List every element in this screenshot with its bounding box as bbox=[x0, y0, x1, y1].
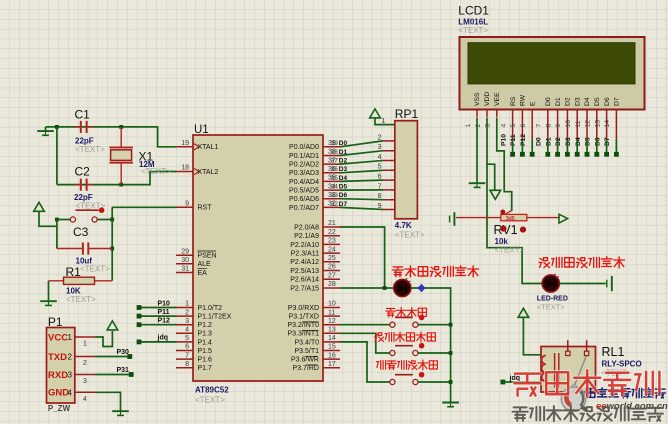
wire VSS to ground bbox=[476, 118, 478, 179]
wire LED2 cathode to 0V bar bbox=[560, 283, 606, 285]
svg-text:P2.6/A14: P2.6/A14 bbox=[290, 277, 319, 284]
annotation: recognize switch key text bbox=[375, 333, 384, 342]
svg-text:D4: D4 bbox=[575, 137, 582, 146]
wire P3.4 to button3 bbox=[340, 342, 390, 382]
svg-text:P2.1/A9: P2.1/A9 bbox=[294, 233, 319, 240]
svg-text:RST: RST bbox=[198, 205, 213, 212]
svg-text:P3.2/INT0: P3.2/INT0 bbox=[287, 322, 319, 329]
svg-text:P_ZW: P_ZW bbox=[48, 404, 71, 413]
wire LCD D4 (D4) wire bbox=[586, 140, 588, 153]
svg-text:C2: C2 bbox=[75, 165, 91, 179]
svg-text:18: 18 bbox=[181, 165, 189, 172]
power arrow VCC (reset) bbox=[34, 202, 45, 211]
svg-text:P2.0/A8: P2.0/A8 bbox=[294, 224, 319, 231]
svg-text:RS: RS bbox=[510, 96, 517, 106]
svg-text:P1.2: P1.2 bbox=[198, 322, 213, 329]
svg-text:1: 1 bbox=[382, 118, 386, 125]
wire button2 to ground rail bbox=[418, 352, 451, 354]
wire LCD D2 (D2) wire bbox=[566, 140, 568, 153]
svg-text:XTAL2: XTAL2 bbox=[198, 169, 219, 176]
svg-text:D6: D6 bbox=[604, 97, 611, 106]
svg-text:D6: D6 bbox=[339, 192, 348, 199]
svg-text:8: 8 bbox=[185, 361, 189, 368]
svg-text:<TEXT>: <TEXT> bbox=[458, 26, 488, 35]
power arrow VCC (P1) bbox=[107, 321, 118, 330]
wire P0.5 to RP1 (net D5) bbox=[340, 189, 383, 191]
svg-text:D3: D3 bbox=[574, 97, 581, 106]
svg-text:P0.0/AD0: P0.0/AD0 bbox=[289, 144, 319, 151]
svg-text:<TEXT>: <TEXT> bbox=[537, 303, 566, 312]
svg-text:38: 38 bbox=[331, 149, 339, 156]
svg-text:9: 9 bbox=[555, 124, 562, 128]
ground GND (buttons) bbox=[442, 398, 459, 406]
ground GND (R1) bbox=[40, 297, 57, 305]
svg-text:26: 26 bbox=[328, 264, 336, 271]
svg-text:4: 4 bbox=[185, 327, 189, 334]
watermark: eeworld blue text (partially hidden) bbox=[586, 389, 595, 398]
junction reset left node bbox=[55, 218, 59, 222]
svg-text:D3: D3 bbox=[565, 137, 572, 146]
svg-text:D7: D7 bbox=[604, 137, 611, 146]
LCD1 pin numbers and net labels (rotated) bbox=[465, 120, 611, 146]
junction button3 right bbox=[449, 380, 453, 384]
svg-text:9: 9 bbox=[185, 201, 189, 208]
wire button3 to ground rail bbox=[418, 381, 451, 383]
node jdq-u1 terminal dot bbox=[137, 340, 142, 345]
svg-text:12: 12 bbox=[585, 120, 592, 128]
svg-text:37: 37 bbox=[331, 158, 339, 165]
svg-text:2: 2 bbox=[83, 360, 87, 367]
power arrow RV1 right (right) bbox=[559, 214, 568, 223]
svg-text:P3.0/RXD: P3.0/RXD bbox=[288, 305, 319, 312]
svg-text:4: 4 bbox=[68, 388, 73, 397]
junction LED1 anode node bbox=[383, 286, 387, 290]
LCD1 pin stubs bbox=[477, 110, 616, 140]
svg-text:GND: GND bbox=[48, 388, 69, 399]
svg-text:AT89C52: AT89C52 bbox=[195, 386, 229, 395]
svg-text:32: 32 bbox=[331, 201, 339, 208]
svg-text:15: 15 bbox=[328, 344, 336, 351]
svg-text:<TEXT>: <TEXT> bbox=[195, 396, 225, 405]
svg-text:P3.1/TXD: P3.1/TXD bbox=[289, 314, 319, 321]
node D4 end terminal dot bbox=[585, 152, 590, 157]
svg-text:P11: P11 bbox=[158, 309, 170, 316]
node P30 terminal dot bbox=[127, 354, 132, 359]
power arrow VCC (relay coil) bbox=[518, 308, 529, 317]
svg-text:VDD: VDD bbox=[484, 92, 491, 106]
wire P0.6 to RP1 (net D6) bbox=[340, 199, 383, 200]
wire reset left vertical bbox=[56, 220, 58, 249]
wire reset right vertical bbox=[111, 207, 113, 280]
RP1 pin numbers bbox=[378, 118, 386, 210]
junction C3 right node bbox=[110, 247, 114, 251]
wire GND of P1 bbox=[95, 392, 121, 407]
svg-text:D0: D0 bbox=[339, 140, 348, 147]
wire VDD branch to LED2 bbox=[487, 164, 542, 283]
svg-text:<TEXT>: <TEXT> bbox=[141, 167, 171, 176]
push-button record key bbox=[390, 315, 425, 328]
node P12 end terminal dot bbox=[530, 152, 535, 157]
wire P0.1 to RP1 (net D1) bbox=[340, 151, 383, 156]
potentiometer RV1 bbox=[456, 210, 560, 223]
node P11 end terminal dot bbox=[520, 152, 525, 157]
node P12 terminal dot bbox=[137, 322, 142, 327]
svg-text:D2: D2 bbox=[339, 158, 348, 165]
svg-text:8: 8 bbox=[545, 124, 552, 128]
svg-text:33: 33 bbox=[331, 192, 339, 199]
svg-text:TXD: TXD bbox=[48, 352, 67, 363]
svg-text:13: 13 bbox=[328, 327, 336, 334]
annotation: record-mode indicator text bbox=[392, 267, 403, 277]
svg-text:<TEXT>: <TEXT> bbox=[66, 295, 96, 304]
wire P10 net bbox=[139, 307, 176, 309]
svg-text:P11: P11 bbox=[510, 134, 517, 146]
wire P3.2 to button1 bbox=[340, 324, 390, 326]
wire VDD to power bbox=[487, 118, 495, 191]
wire RP1 pin1 to power bbox=[375, 118, 395, 125]
svg-text:P12: P12 bbox=[158, 318, 171, 325]
svg-text:D5: D5 bbox=[585, 137, 592, 146]
junction X1 bottom bbox=[119, 183, 123, 187]
svg-text:<TEXT>: <TEXT> bbox=[80, 265, 110, 274]
svg-text:XTAL1: XTAL1 bbox=[198, 144, 219, 151]
svg-text:P2.5/A13: P2.5/A13 bbox=[290, 268, 319, 275]
svg-text:11: 11 bbox=[328, 309, 335, 316]
svg-text:P2.2/A10: P2.2/A10 bbox=[290, 242, 319, 249]
node P31 terminal dot bbox=[129, 372, 134, 377]
svg-text:D4: D4 bbox=[339, 175, 348, 182]
svg-text:VSS: VSS bbox=[474, 92, 481, 106]
wire LCD D7 (D7) wire bbox=[615, 140, 617, 153]
svg-text:3: 3 bbox=[185, 318, 189, 325]
wire XTAL1 net bbox=[46, 127, 177, 147]
svg-text:VCC: VCC bbox=[48, 332, 68, 343]
svg-text:23: 23 bbox=[328, 238, 336, 245]
U1 left pin stubs bbox=[176, 147, 193, 368]
svg-text:11: 11 bbox=[575, 120, 582, 127]
svg-text:3: 3 bbox=[83, 378, 87, 385]
wire P31 net from RXD bbox=[95, 374, 131, 376]
svg-text:P0.6/AD6: P0.6/AD6 bbox=[289, 196, 319, 203]
wire LED1 cathode to ground rail bbox=[411, 288, 451, 398]
svg-text:<TEXT>: <TEXT> bbox=[395, 231, 425, 240]
svg-text:7: 7 bbox=[185, 352, 189, 359]
wire LCD RW (P11) wire bbox=[521, 140, 523, 153]
svg-text:5: 5 bbox=[185, 335, 189, 342]
P1 outer pin numbers bbox=[83, 341, 87, 403]
ground GND (P1) bbox=[112, 407, 129, 415]
svg-text:P2.3/A11: P2.3/A11 bbox=[291, 251, 319, 258]
svg-text:RP1: RP1 bbox=[395, 107, 419, 121]
wire button1 to ground rail bbox=[418, 324, 451, 326]
svg-text:P1.1/T2EX: P1.1/T2EX bbox=[198, 314, 232, 321]
RP1 pin stubs bbox=[383, 141, 395, 210]
wire P11 net bbox=[139, 315, 176, 317]
wire LCD RS (P10) wire bbox=[512, 140, 514, 153]
wire P12 net bbox=[139, 324, 176, 326]
relay RL1 bbox=[541, 340, 596, 392]
svg-text:12: 12 bbox=[328, 318, 336, 325]
U1 XTAL clock chevrons bbox=[194, 144, 199, 175]
svg-text:P3.6/WR: P3.6/WR bbox=[291, 357, 319, 364]
node P10 end terminal dot bbox=[510, 152, 515, 157]
capacitor C3 bbox=[57, 243, 112, 255]
watermark: RF antenna expert text bbox=[513, 407, 528, 421]
svg-text:P1.0/T2: P1.0/T2 bbox=[198, 305, 223, 312]
svg-text:D5: D5 bbox=[339, 184, 348, 191]
svg-text:7: 7 bbox=[536, 124, 543, 128]
annotation: recognize-mode indicator text bbox=[539, 258, 550, 268]
resistor R1 bbox=[49, 277, 113, 284]
node D6 end terminal dot bbox=[604, 152, 609, 157]
U1 left pin names bbox=[198, 144, 232, 372]
LED D-record (P2 indicator) bbox=[394, 278, 411, 296]
svg-text:P30: P30 bbox=[117, 349, 130, 356]
svg-text:P10: P10 bbox=[158, 300, 171, 307]
svg-text:D1: D1 bbox=[545, 137, 552, 146]
svg-text:jdq: jdq bbox=[157, 335, 169, 342]
wire VCC of P1 to power bbox=[95, 331, 113, 347]
U1 right pin stubs bbox=[323, 147, 340, 368]
svg-text:E: E bbox=[529, 101, 536, 106]
wire LCD D6 (D6) wire bbox=[606, 140, 608, 153]
svg-text:D7: D7 bbox=[339, 201, 348, 208]
svg-text:39: 39 bbox=[331, 140, 339, 147]
svg-text:U1: U1 bbox=[194, 124, 209, 136]
svg-text:21: 21 bbox=[328, 220, 336, 227]
svg-text:16: 16 bbox=[328, 352, 336, 359]
push-button recognize-switch key bbox=[390, 343, 425, 356]
P1 pin numbers (inside) bbox=[68, 333, 73, 397]
svg-text:2: 2 bbox=[378, 134, 382, 141]
svg-text:D1: D1 bbox=[339, 149, 348, 156]
wire LCD D1 (D1) wire bbox=[557, 140, 559, 153]
svg-text:1: 1 bbox=[185, 301, 189, 308]
svg-text:10: 10 bbox=[328, 301, 336, 308]
U1 right pin names bbox=[287, 144, 319, 372]
wire R1 to ground bbox=[48, 281, 50, 297]
svg-text:13: 13 bbox=[594, 120, 601, 128]
svg-text:D0: D0 bbox=[545, 97, 552, 106]
power bar (LED2 right 0V) bbox=[607, 276, 612, 291]
svg-text:ALE: ALE bbox=[198, 261, 212, 268]
svg-text:P0.7/AD7: P0.7/AD7 bbox=[289, 205, 319, 212]
svg-text:D5: D5 bbox=[594, 97, 601, 106]
svg-text:6: 6 bbox=[520, 124, 527, 128]
junction X1 top bbox=[119, 125, 123, 129]
wire power arrow stem to reset node bbox=[39, 211, 57, 226]
svg-text:1: 1 bbox=[465, 124, 472, 128]
wire P0.4 to RP1 (net D4) bbox=[340, 180, 383, 181]
svg-text:1: 1 bbox=[83, 341, 87, 348]
svg-text:LED-RED: LED-RED bbox=[537, 296, 568, 303]
wire RST net to U1 bbox=[112, 206, 176, 208]
node P10 terminal dot bbox=[137, 305, 142, 310]
svg-text:D2: D2 bbox=[555, 137, 562, 146]
svg-text:C1: C1 bbox=[75, 108, 91, 122]
svg-text:34: 34 bbox=[331, 184, 339, 191]
svg-text:27: 27 bbox=[328, 272, 336, 279]
push-button erase-fingerprint key bbox=[390, 372, 425, 385]
svg-text:P2.7/A15: P2.7/A15 bbox=[290, 285, 319, 292]
wire P0.7 to RP1 (net D7) bbox=[340, 207, 383, 209]
annotation: record key text bbox=[386, 308, 396, 317]
watermark: Yidituo training red strokes bbox=[514, 374, 540, 396]
junction button2 right bbox=[449, 351, 453, 355]
wire cap common left vertical bbox=[56, 127, 58, 185]
wire RV1 to arrow bbox=[558, 218, 559, 220]
wire P2.7 to LED1 bbox=[340, 287, 394, 289]
svg-text:D4: D4 bbox=[584, 97, 591, 106]
annotation: erase fingerprint key text bbox=[377, 361, 386, 370]
svg-text:3: 3 bbox=[68, 371, 73, 380]
display LCD1 (LM016L) body bbox=[460, 37, 645, 110]
watermark: logo circle bbox=[561, 386, 588, 412]
LCD1 pin names (rotated) bbox=[474, 92, 620, 106]
svg-text:P2.4/A12: P2.4/A12 bbox=[290, 259, 319, 266]
svg-text:28: 28 bbox=[328, 281, 336, 288]
node D1 end terminal dot bbox=[555, 152, 560, 157]
svg-text:17: 17 bbox=[328, 361, 336, 368]
node jdq (relay) terminal dot bbox=[501, 380, 506, 385]
junction reset right node bbox=[110, 218, 114, 222]
LED D-recognize (LED-RED) bbox=[542, 274, 559, 292]
ground GND (LCD VSS) bbox=[469, 179, 486, 187]
wire P2.0 to LED1 node bbox=[340, 227, 385, 288]
wire LCD E (P12) wire bbox=[531, 140, 533, 153]
svg-text:P1.6: P1.6 bbox=[198, 357, 213, 364]
node P11 terminal dot bbox=[137, 314, 142, 319]
svg-text:19: 19 bbox=[181, 140, 189, 147]
wire relay coil top to power bbox=[523, 317, 541, 355]
power arrow VCC (RP1) bbox=[370, 109, 381, 118]
wire P3.3 to button2 bbox=[340, 333, 390, 353]
svg-text:RL1: RL1 bbox=[602, 345, 625, 359]
P1 pin stubs bbox=[75, 337, 95, 392]
op-amp U1 body (AT89C52 MCU) bbox=[193, 135, 323, 381]
svg-text:3: 3 bbox=[485, 124, 492, 128]
svg-text:RLY-SPCO: RLY-SPCO bbox=[602, 360, 642, 369]
svg-text:P0.5/AD5: P0.5/AD5 bbox=[289, 188, 319, 195]
wire reset button right bbox=[97, 219, 112, 221]
svg-text:D1: D1 bbox=[555, 97, 562, 106]
svg-text:D6: D6 bbox=[594, 137, 601, 146]
svg-text:D2: D2 bbox=[565, 97, 572, 106]
capacitor C2 bbox=[74, 179, 93, 191]
node D3 end terminal dot bbox=[575, 152, 580, 157]
push-button RESET bbox=[70, 207, 104, 222]
svg-text:31: 31 bbox=[181, 266, 189, 273]
watermark: Yidituo training (big red) bbox=[514, 374, 540, 396]
svg-text:1: 1 bbox=[68, 333, 73, 342]
RV1 terminal dots bbox=[500, 226, 506, 232]
capacitor C1 bbox=[74, 121, 93, 133]
svg-text:2: 2 bbox=[185, 309, 189, 316]
svg-text:P3.3/INT1: P3.3/INT1 bbox=[287, 331, 319, 338]
wire P0.0 to RP1 (net D0) bbox=[340, 141, 383, 147]
svg-text:4: 4 bbox=[500, 124, 507, 128]
ground GND (crystal circuit) bbox=[37, 127, 54, 135]
svg-text:36: 36 bbox=[331, 166, 339, 173]
resistor pack RP1 bbox=[395, 121, 418, 219]
svg-text:D0: D0 bbox=[536, 137, 543, 146]
node origin marker (blue) bbox=[418, 284, 426, 292]
junction C1 left bbox=[55, 125, 59, 129]
wire jdq net (U1) bbox=[139, 341, 176, 343]
wire LCD D3 (D3) wire bbox=[576, 140, 578, 153]
U1 right pin numbers bbox=[328, 140, 336, 368]
wire reset button left bbox=[57, 219, 70, 221]
svg-text:<TEXT>: <TEXT> bbox=[495, 246, 525, 255]
U1 left pin numbers bbox=[181, 140, 189, 368]
svg-text:P1.7: P1.7 bbox=[198, 365, 213, 372]
svg-text:P31: P31 bbox=[117, 367, 130, 374]
svg-text:2: 2 bbox=[475, 124, 482, 128]
node D7 end terminal dot bbox=[614, 152, 619, 157]
wire LCD D0 (D0) wire bbox=[547, 140, 549, 153]
svg-text:29: 29 bbox=[181, 248, 189, 255]
svg-text:2: 2 bbox=[68, 353, 73, 362]
svg-text:VEE: VEE bbox=[494, 92, 501, 106]
svg-text:10k: 10k bbox=[495, 237, 509, 246]
svg-text:25: 25 bbox=[328, 255, 336, 262]
svg-text:P0.1/AD1: P0.1/AD1 bbox=[289, 153, 319, 160]
svg-text:35: 35 bbox=[331, 175, 339, 182]
connector P1 bbox=[47, 328, 75, 404]
svg-text:P1.4: P1.4 bbox=[198, 339, 213, 346]
svg-text:P0.2/AD2: P0.2/AD2 bbox=[289, 162, 319, 169]
LCD1 screen bbox=[468, 43, 635, 84]
wire LCD D5 (D5) wire bbox=[596, 140, 598, 153]
wire VEE to RV1 wiper bbox=[497, 118, 512, 211]
svg-text:22: 22 bbox=[328, 229, 336, 236]
node D5 end terminal dot bbox=[594, 152, 599, 157]
svg-text:14: 14 bbox=[328, 335, 336, 342]
power arrow VDD (LCD) (down) bbox=[490, 190, 501, 199]
svg-text:R1: R1 bbox=[66, 265, 82, 279]
svg-text:6: 6 bbox=[185, 344, 189, 351]
svg-text:P10: P10 bbox=[500, 134, 507, 146]
svg-text:10: 10 bbox=[565, 120, 572, 128]
svg-text:24: 24 bbox=[328, 246, 336, 253]
svg-text:P0.4/AD4: P0.4/AD4 bbox=[289, 179, 319, 186]
P1 pin names bbox=[48, 332, 69, 398]
wire XTAL2 net bbox=[57, 172, 176, 185]
svg-text:P1: P1 bbox=[48, 315, 63, 329]
wire jdq to relay coil bbox=[503, 381, 541, 383]
svg-text:jdq: jdq bbox=[509, 375, 521, 382]
svg-text:RXD: RXD bbox=[48, 370, 68, 381]
svg-text:4: 4 bbox=[83, 396, 87, 403]
svg-text:LCD1: LCD1 bbox=[458, 4, 489, 18]
svg-text:<TEXT>: <TEXT> bbox=[75, 145, 105, 154]
svg-text:C3: C3 bbox=[73, 225, 89, 239]
svg-text:3d5: 3d5 bbox=[506, 216, 515, 222]
svg-text:3: 3 bbox=[378, 144, 382, 151]
wire P0.3 to RP1 (net D3) bbox=[340, 170, 383, 173]
svg-text:PSEN: PSEN bbox=[198, 253, 217, 260]
svg-text:P3.7/RD: P3.7/RD bbox=[293, 365, 319, 372]
node D0 end terminal dot bbox=[545, 152, 550, 157]
svg-text:5: 5 bbox=[510, 124, 517, 128]
svg-text:4.7K: 4.7K bbox=[395, 221, 412, 230]
svg-text:EA: EA bbox=[198, 270, 208, 277]
svg-text:14: 14 bbox=[604, 120, 611, 128]
svg-text:30: 30 bbox=[181, 257, 189, 264]
svg-text:P1.3: P1.3 bbox=[198, 331, 213, 338]
svg-text:RW: RW bbox=[520, 94, 527, 106]
power bar (RV1 left 0V) bbox=[450, 212, 455, 226]
